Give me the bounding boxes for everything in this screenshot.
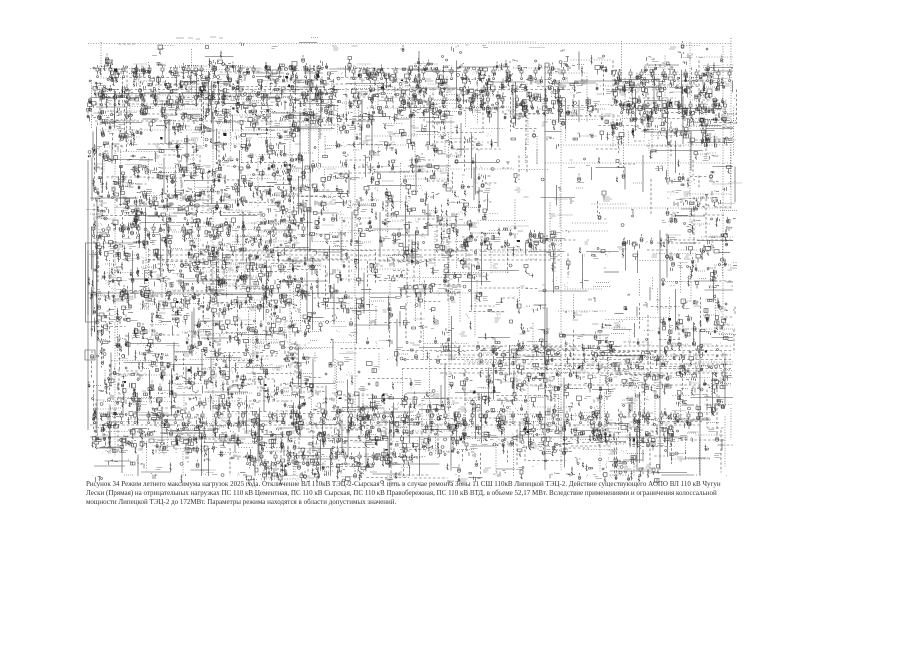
wire W866	[712, 337, 734, 339]
wire W326	[172, 140, 183, 142]
label	[308, 70, 314, 72]
north row A2 bay 17	[316, 93, 319, 106]
wire W430	[275, 179, 311, 181]
contact group K275	[469, 104, 491, 116]
wire W911	[465, 360, 505, 362]
wire W67	[169, 83, 203, 85]
feeder bay K107	[436, 79, 447, 88]
contact group K294	[683, 108, 695, 120]
wire W882	[341, 348, 383, 350]
wire W933	[185, 367, 187, 386]
contact group K325	[611, 121, 618, 136]
wire W1172	[636, 429, 645, 431]
label	[563, 62, 569, 66]
feeder bay K71	[595, 62, 607, 75]
wire W359	[353, 149, 361, 151]
north row A2 bay 7	[181, 93, 184, 106]
wire W901	[190, 359, 227, 361]
wire W761	[474, 293, 476, 338]
feeder bay K354	[400, 130, 407, 138]
wire W131	[558, 87, 560, 124]
wire W464	[202, 200, 204, 214]
wire W774	[255, 303, 257, 351]
wire W1305	[610, 474, 627, 476]
wire W502	[128, 215, 162, 217]
wire W64	[130, 77, 178, 79]
north row A bay 9	[200, 65, 203, 78]
label	[432, 68, 439, 72]
wire W203	[410, 105, 412, 142]
wire W484	[178, 205, 198, 207]
junction dots K315	[335, 115, 341, 122]
wire W1104	[204, 422, 206, 463]
wire W705	[694, 280, 718, 282]
wire W1272	[687, 457, 707, 459]
wire W1174	[651, 430, 662, 432]
wire W11	[578, 52, 580, 71]
wire W1024	[481, 394, 483, 444]
wire W830	[119, 335, 121, 371]
wire W14	[148, 62, 150, 77]
wire W132	[600, 85, 620, 87]
wire W202	[399, 107, 430, 109]
contact group K78	[107, 77, 116, 82]
north row B bay 7	[436, 67, 439, 80]
contact group K207	[309, 92, 320, 105]
wire W236	[295, 117, 338, 119]
wire W1226	[283, 446, 285, 456]
wire W696	[341, 278, 364, 280]
lower bus	[90, 436, 688, 438]
label	[335, 110, 338, 112]
wire W386	[692, 160, 694, 176]
feeder bay K61	[479, 68, 488, 76]
wire W454	[478, 187, 480, 213]
trunk wire B	[212, 65, 214, 440]
wire W1287	[496, 468, 515, 470]
wire W32	[220, 71, 263, 73]
switch box K212	[376, 93, 392, 97]
wire W1010	[246, 396, 248, 434]
wire W594	[554, 243, 556, 272]
wire W350	[120, 150, 122, 193]
wire W780	[405, 304, 407, 341]
disconnector stack K318	[384, 124, 386, 130]
label	[158, 48, 165, 50]
north row B bay 11	[492, 67, 495, 80]
north row A2 bay 4	[141, 93, 144, 106]
wire W192	[266, 109, 268, 153]
wire W189	[224, 103, 239, 105]
wire W176	[661, 98, 663, 121]
wire W119	[345, 88, 347, 117]
wire W763	[573, 295, 575, 320]
right lower bundle	[560, 384, 731, 386]
wire W287	[686, 124, 719, 126]
wire W501	[122, 213, 124, 251]
wire W1093	[618, 409, 620, 438]
wire W363	[518, 156, 520, 181]
wire W1179	[121, 438, 123, 474]
machine K343	[203, 127, 211, 133]
wire W782	[470, 305, 495, 307]
label	[348, 126, 356, 130]
label	[493, 112, 497, 114]
wire W247	[434, 113, 436, 158]
wire W554	[264, 229, 296, 231]
wire W1216	[97, 447, 114, 449]
wire W256	[612, 114, 614, 147]
wire W630	[97, 257, 99, 283]
wire W592	[534, 238, 565, 240]
wire W668	[306, 272, 308, 313]
wire W914	[496, 357, 521, 359]
wire W1208	[636, 442, 650, 444]
wire W544	[572, 222, 608, 224]
wire W429	[267, 182, 278, 184]
feeder bay K89	[224, 74, 235, 88]
wire W1301	[398, 474, 430, 476]
junction dots K99	[337, 73, 343, 80]
wire W1153	[298, 428, 300, 460]
north row B bay 2	[366, 67, 369, 80]
wire W556	[311, 234, 322, 236]
wire W347	[733, 139, 736, 141]
wire W862	[596, 340, 604, 342]
wire W1156	[384, 432, 433, 434]
wire W444	[211, 185, 213, 204]
wire W1123	[480, 417, 508, 419]
wire W1021	[437, 397, 476, 399]
north row A2 bay 8	[195, 93, 198, 106]
switch box K351	[296, 126, 300, 132]
wire W1288	[610, 470, 652, 472]
wire W1248	[614, 448, 616, 477]
wire W643	[283, 260, 322, 262]
label	[329, 72, 338, 74]
wire W127	[482, 90, 484, 134]
label	[320, 133, 323, 135]
wire W1141	[132, 428, 147, 430]
wire W1026	[553, 398, 562, 400]
wire W31	[208, 71, 210, 113]
wire W832	[154, 334, 181, 336]
wire W566	[471, 233, 473, 242]
wire W138	[681, 87, 683, 117]
wire W915	[525, 356, 562, 358]
disconnector stack K58	[443, 59, 453, 74]
wire W29	[196, 73, 198, 107]
wire W777	[356, 303, 358, 344]
contact group K95	[290, 73, 299, 84]
label	[598, 57, 604, 59]
label	[541, 100, 549, 104]
wire W354	[193, 152, 195, 181]
wire W785	[636, 307, 638, 317]
wire W752	[244, 299, 262, 301]
south row F bay 2	[107, 411, 110, 424]
wire W638	[226, 257, 228, 299]
wire W750	[222, 294, 262, 296]
wire W218	[686, 108, 721, 110]
wire W692	[265, 281, 267, 323]
contact group K9	[560, 50, 565, 51]
wire W521	[449, 218, 451, 241]
wire W1222	[229, 448, 231, 476]
wire W629	[719, 252, 730, 254]
feeder bay K54	[403, 66, 413, 83]
wire W357	[259, 154, 302, 156]
wire W1273	[698, 457, 710, 459]
disconnector stack K340	[173, 126, 186, 136]
wire W123	[411, 87, 458, 89]
wire W515	[351, 212, 353, 243]
wire W1144	[172, 430, 182, 432]
wire W670	[356, 268, 404, 270]
label	[678, 105, 684, 109]
wire W436	[485, 182, 499, 184]
wire W945	[513, 370, 515, 395]
feeder bay K179	[642, 79, 648, 98]
contact group K253	[220, 109, 229, 122]
north row B bay 10	[478, 67, 481, 80]
wire W1075	[264, 416, 284, 418]
wire W956	[721, 370, 734, 372]
wire W728	[400, 288, 432, 290]
wire W145	[129, 98, 131, 140]
wire W231	[240, 116, 271, 118]
wire W1028	[599, 394, 601, 419]
wire W904	[221, 358, 269, 360]
wire W351	[137, 149, 182, 151]
wire W185	[154, 104, 195, 106]
contact group K23	[647, 57, 656, 62]
contact group K193	[161, 101, 166, 115]
wire W642	[271, 263, 300, 265]
wire W164	[434, 100, 473, 102]
transformer K326	[616, 119, 622, 127]
wire W274	[352, 120, 375, 122]
contact group K64	[505, 60, 518, 66]
wire W190	[230, 106, 232, 152]
wire W829	[714, 324, 734, 326]
trunk wire F	[448, 228, 450, 432]
wire W937	[247, 367, 281, 369]
wire W165	[444, 94, 486, 96]
wire W459	[149, 195, 161, 197]
wire W983	[202, 386, 204, 394]
wire W455	[556, 185, 558, 206]
contact group K230	[586, 97, 596, 111]
label	[352, 45, 358, 47]
south row F bay 31	[498, 411, 501, 424]
wire W527	[91, 227, 93, 270]
wire W1192	[328, 438, 343, 440]
wire W70	[203, 84, 205, 119]
wire W722	[312, 290, 314, 330]
wire W37	[295, 74, 297, 112]
north row B2 bay 9	[472, 95, 475, 108]
contact group K166	[483, 84, 495, 96]
wire W560	[358, 237, 360, 280]
wire W96	[586, 76, 588, 122]
wire W726	[369, 289, 371, 330]
wire W94	[558, 80, 560, 122]
label	[365, 136, 374, 140]
wire W1162	[450, 435, 452, 471]
wire W757	[370, 297, 397, 299]
contact group K108	[439, 75, 444, 85]
wire W178	[699, 100, 701, 114]
wire W97	[617, 79, 661, 81]
wire W539	[392, 220, 403, 222]
north row B2 bay 10	[487, 95, 490, 108]
wire W1108	[257, 425, 259, 461]
machine K284	[566, 107, 570, 115]
north row B bay 5	[408, 67, 411, 80]
contact group K135	[148, 88, 155, 96]
wire W150	[212, 94, 261, 96]
wire W664	[216, 268, 218, 295]
contact group K72	[605, 66, 621, 75]
wire W452	[387, 190, 389, 235]
label	[387, 125, 394, 127]
wire W790	[94, 318, 96, 333]
wire W650	[413, 257, 415, 293]
wire W584	[337, 240, 361, 242]
wire W1084	[360, 413, 362, 435]
wire W322	[94, 144, 96, 185]
wire W104	[124, 86, 126, 130]
wire W179	[703, 99, 727, 101]
wire W558	[340, 234, 342, 261]
wire W475	[559, 195, 561, 228]
wire W1076	[276, 410, 295, 412]
wire W286	[683, 126, 723, 128]
label	[272, 47, 278, 49]
south row G bay 10	[372, 452, 375, 465]
wire W136	[647, 93, 649, 125]
wire W640	[252, 258, 254, 273]
wire W1310	[726, 475, 728, 478]
contact group K329	[647, 114, 653, 127]
south row F bay 24	[404, 411, 407, 424]
wire W421	[161, 175, 171, 177]
wire W61	[91, 80, 93, 129]
feeder trunk F7	[440, 372, 731, 374]
wire W1054	[400, 404, 443, 406]
contact group K69	[559, 61, 575, 72]
wire W260	[690, 114, 692, 123]
trunk wire G	[544, 66, 546, 470]
wire W275	[361, 125, 363, 150]
wire W563	[415, 232, 417, 266]
wire W1109	[301, 422, 321, 424]
feeder bay K288	[627, 106, 632, 116]
wire W1100	[164, 424, 173, 426]
mid row E bay 2	[107, 224, 110, 237]
wire W936	[227, 371, 229, 418]
wire W821	[354, 324, 390, 326]
wire W1215	[721, 439, 723, 451]
wire W1074	[258, 414, 260, 455]
wire W641	[266, 260, 268, 304]
junction dots K259	[284, 114, 296, 119]
wire W1150	[264, 434, 285, 436]
label	[166, 120, 173, 124]
wire W766	[715, 295, 717, 318]
north row B bay 15	[548, 67, 551, 80]
wire W56	[681, 70, 683, 108]
station bus line	[95, 120, 333, 122]
wire W1081	[337, 409, 372, 411]
north-east row C bay 3	[640, 69, 643, 82]
contact group K217	[431, 102, 438, 111]
wire W49	[545, 72, 588, 74]
wire W476	[597, 201, 599, 216]
wire W813	[150, 324, 167, 326]
label	[197, 97, 204, 101]
machine K347	[257, 128, 274, 135]
wire W555	[270, 233, 272, 247]
wire W1033	[680, 396, 682, 421]
label	[219, 80, 228, 84]
wire W10	[418, 51, 420, 95]
contact group K265	[359, 111, 371, 119]
wire W855	[296, 344, 298, 380]
feeder bay K314	[316, 116, 327, 127]
wire W1261	[308, 456, 350, 458]
wire W1290	[633, 464, 635, 476]
south row F bay 4	[134, 411, 137, 424]
wire W831	[128, 333, 130, 356]
contact group K124	[664, 77, 674, 87]
contact group K116	[535, 77, 543, 86]
wire W1039	[136, 403, 138, 414]
wire W1136	[679, 418, 712, 420]
wire W787	[651, 306, 680, 308]
wire W918	[608, 357, 610, 399]
north row A bay 16	[291, 65, 294, 78]
wire W1304	[469, 477, 483, 479]
wire W148	[183, 97, 216, 99]
wire W591	[525, 243, 527, 255]
wire W570	[701, 236, 733, 238]
wire W100	[673, 80, 708, 82]
label	[693, 122, 700, 124]
wire W760	[434, 292, 476, 294]
wire W220	[710, 109, 727, 111]
north-east row C bay 1	[618, 69, 621, 82]
wire W854	[294, 343, 296, 374]
wire W1277	[266, 469, 268, 476]
wire W603	[208, 250, 226, 252]
disconnector stack K92	[258, 80, 279, 89]
wire W22	[727, 64, 733, 66]
wire W627	[654, 253, 698, 255]
disconnector stack K195	[176, 94, 183, 104]
label	[415, 79, 421, 83]
label	[275, 124, 281, 126]
contact group K274	[459, 108, 469, 115]
junction dots K60	[468, 67, 479, 76]
wire W518	[418, 218, 438, 220]
wire W975	[611, 374, 660, 376]
wire W1047	[245, 400, 293, 402]
wire W981	[149, 390, 151, 406]
wire W559	[349, 230, 389, 232]
transformer K175	[596, 84, 598, 90]
